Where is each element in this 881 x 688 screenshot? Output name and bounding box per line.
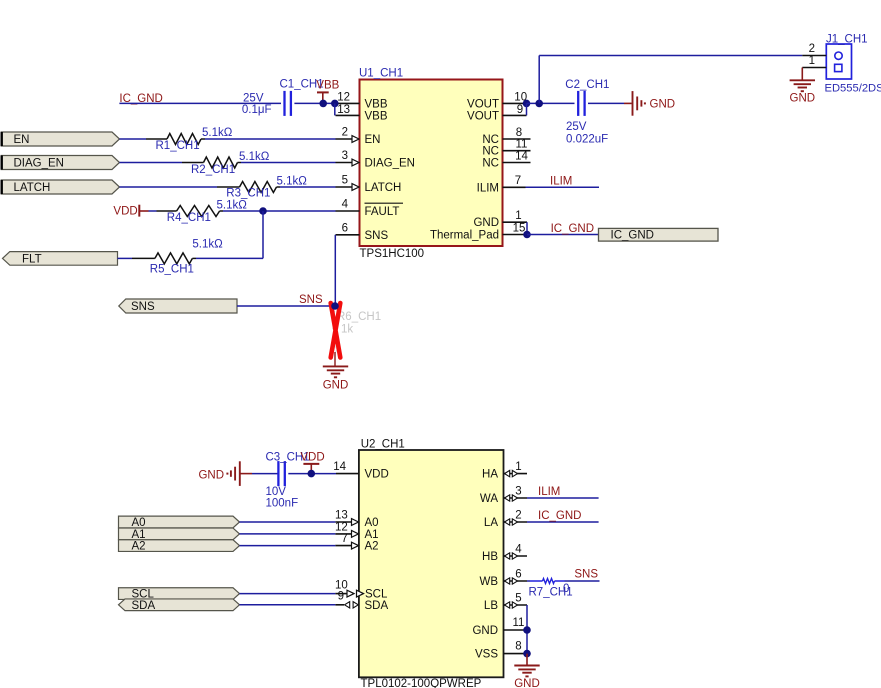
wire LB down: [526, 605, 528, 654]
svg-text:10V: 10V: [266, 486, 287, 498]
svg-text:A0: A0: [132, 517, 146, 529]
net label SNS: [299, 294, 323, 306]
U1 pin 12 VBB: [336, 91, 388, 110]
svg-text:IC_GND: IC_GND: [611, 229, 654, 241]
wire WA ILIM: [527, 497, 599, 499]
J1 pin 1: [802, 55, 826, 68]
U1 pin 5 LATCH: [336, 175, 402, 194]
capacitor C1 C1_CH1: [242, 79, 324, 116]
svg-text:15: 15: [513, 222, 526, 234]
svg-text:9: 9: [517, 104, 523, 116]
U2 pin 6 WB: [479, 568, 527, 588]
junction VOUT pins: [523, 100, 531, 108]
svg-text:NC: NC: [482, 146, 499, 158]
resistor R1 R1_CH1: [146, 127, 233, 152]
svg-text:ILIM: ILIM: [477, 182, 499, 194]
wire C3 to U2 VDD: [288, 473, 336, 475]
svg-text:8: 8: [516, 127, 522, 139]
junction VDD C3: [308, 470, 316, 478]
svg-text:14: 14: [515, 150, 528, 162]
connector J1 J1_CH1 body: [825, 34, 881, 95]
svg-text:EN: EN: [365, 134, 381, 146]
ground GND left of C3: [198, 461, 252, 486]
wire IC_GND to flag: [527, 234, 599, 236]
svg-text:9: 9: [338, 590, 344, 602]
wire pin1 to pin15: [526, 222, 528, 234]
port LATCH: [1, 180, 119, 194]
svg-text:25V: 25V: [243, 93, 264, 105]
svg-text:3: 3: [342, 150, 348, 162]
junction GND pin: [523, 626, 531, 634]
U2 part number TPL0102-100QPWREP: [361, 678, 482, 688]
resistor R3 R3_CH1: [217, 175, 307, 199]
svg-text:FLT: FLT: [22, 254, 42, 266]
wire FLT flag to R5: [118, 257, 133, 259]
svg-text:1: 1: [809, 55, 815, 67]
svg-text:U2_CH1: U2_CH1: [361, 438, 405, 450]
wire WB to R7: [527, 580, 530, 582]
svg-text:IC_GND: IC_GND: [538, 510, 581, 522]
U2 pin 3 WA: [480, 485, 527, 505]
svg-text:SNS: SNS: [365, 230, 389, 242]
capacitor C2 C2_CH1: [565, 79, 609, 145]
wire A0: [240, 521, 336, 523]
svg-text:A2: A2: [365, 541, 379, 553]
wire ILIM: [526, 186, 600, 188]
U1 pin 2 EN: [336, 127, 381, 146]
svg-text:GND: GND: [323, 380, 349, 392]
wire R6 to GND: [334, 352, 336, 366]
svg-text:6: 6: [342, 222, 348, 234]
U1 pin 13 VBB: [336, 104, 388, 123]
svg-text:TPL0102-100QPWREP: TPL0102-100QPWREP: [361, 678, 482, 688]
svg-text:HB: HB: [482, 551, 498, 563]
svg-text:NC: NC: [482, 134, 499, 146]
svg-text:GND: GND: [790, 93, 816, 105]
svg-text:A0: A0: [365, 517, 379, 529]
wire FAULT node down: [262, 211, 264, 258]
svg-text:100nF: 100nF: [266, 498, 299, 510]
svg-text:13: 13: [335, 510, 348, 522]
U1 pin 6 SNS: [336, 222, 389, 241]
svg-text:13: 13: [337, 104, 350, 116]
svg-text:6: 6: [515, 568, 521, 580]
op-amp U2 TPL0102 body: [359, 450, 504, 677]
svg-text:VOUT: VOUT: [467, 98, 499, 110]
svg-text:LATCH: LATCH: [14, 182, 51, 194]
svg-text:VSS: VSS: [475, 649, 498, 661]
wire C1 to U1 VBB: [294, 102, 335, 104]
wire R2 to U1 DIAG_EN: [241, 162, 336, 164]
net label IC_GND: [119, 93, 162, 105]
J1 pin 2: [802, 43, 826, 56]
svg-text:VBB: VBB: [316, 79, 339, 91]
svg-text:SNS: SNS: [131, 301, 155, 313]
wire A1: [240, 533, 336, 535]
wire GND to C3: [252, 473, 278, 475]
U1 designator U1_CH1: [359, 68, 403, 80]
U2 pin 9 SDA: [335, 590, 388, 612]
svg-text:ILIM: ILIM: [538, 486, 560, 498]
junction VBB wire: [319, 100, 327, 108]
wire VBB branch to pin 13: [334, 103, 336, 115]
power port VBB: [316, 79, 339, 103]
wire VOUT to J1 vertical: [538, 56, 540, 104]
junction VOUT J1 branch: [535, 100, 543, 108]
U1 pin 9 VOUT: [467, 104, 526, 123]
net label SNS at U2: [574, 569, 598, 581]
U1 pin 14 NC: [482, 150, 530, 169]
svg-text:ILIM: ILIM: [550, 176, 572, 188]
svg-text:5: 5: [342, 175, 348, 187]
resistor R5 R5_CH1: [132, 239, 223, 276]
svg-text:TPS1HC100: TPS1HC100: [360, 248, 425, 260]
U1 pin 8 NC: [482, 127, 530, 146]
svg-text:3: 3: [515, 485, 521, 497]
junction VSS pin: [523, 650, 531, 658]
svg-text:GND: GND: [472, 625, 498, 637]
svg-text:SDA: SDA: [132, 600, 156, 612]
svg-text:SNS: SNS: [574, 569, 598, 581]
svg-text:14: 14: [333, 461, 346, 473]
svg-text:GND: GND: [650, 98, 676, 110]
U2 designator U2_CH1: [361, 438, 405, 450]
wire R4 to U1 FAULT: [223, 210, 336, 212]
U2 pin 2 LA: [484, 509, 527, 529]
svg-text:5: 5: [515, 592, 521, 604]
svg-text:EN: EN: [14, 134, 30, 146]
svg-text:R1_CH1: R1_CH1: [156, 140, 200, 152]
U2 pin 11 GND: [472, 617, 527, 637]
wire VOUT to C2: [527, 102, 575, 104]
wire IC_GND to C1: [119, 102, 281, 104]
svg-text:12: 12: [335, 522, 348, 534]
U1 pin 11 NC: [482, 139, 530, 158]
svg-text:R4_CH1: R4_CH1: [167, 212, 211, 224]
svg-text:NC: NC: [482, 158, 499, 170]
port EN: [1, 132, 119, 146]
port IC_GND: [599, 228, 719, 241]
net label ILIM at U2: [538, 486, 560, 498]
U1 pin 1 GND: [473, 210, 527, 229]
U2 pin 12 A1: [335, 522, 379, 541]
svg-text:4: 4: [515, 543, 522, 555]
svg-text:1: 1: [515, 461, 521, 473]
svg-text:A1: A1: [132, 529, 146, 541]
capacitor C3 C3_CH1: [266, 452, 310, 510]
port SDA: [119, 599, 240, 612]
junction pin13 branch: [331, 100, 339, 108]
svg-text:12: 12: [337, 91, 350, 103]
wire VDD to R4: [149, 210, 157, 212]
wire SCL: [240, 593, 336, 595]
wire SNS flag to node: [237, 305, 335, 307]
net label IC_GND at U2: [538, 510, 581, 522]
svg-text:11: 11: [513, 617, 525, 629]
resistor R2 R2_CH1: [182, 151, 270, 176]
svg-text:8: 8: [515, 641, 521, 653]
svg-text:A2: A2: [132, 541, 146, 553]
ground GND at J1: [790, 80, 816, 104]
svg-text:FAULT: FAULT: [365, 206, 400, 218]
svg-text:LB: LB: [484, 600, 498, 612]
no-fit cross on R6: [331, 303, 341, 358]
svg-text:0: 0: [563, 583, 569, 595]
ground GND right of C2: [633, 91, 676, 116]
svg-text:DIAG_EN: DIAG_EN: [365, 158, 416, 170]
svg-text:GND: GND: [198, 470, 224, 482]
port SCL: [119, 588, 240, 601]
wire J1 pin1 to GND: [801, 68, 803, 81]
svg-text:SNS: SNS: [299, 294, 323, 306]
U1 part number TPS1HC100: [360, 248, 425, 260]
port A0: [119, 516, 240, 529]
U2 pin 1 HA: [482, 461, 527, 481]
U2 pin 10 SCL: [335, 580, 388, 601]
svg-text:VBB: VBB: [365, 98, 388, 110]
svg-text:R2_CH1: R2_CH1: [191, 164, 235, 176]
power port VDD at U2: [300, 452, 324, 474]
svg-text:7: 7: [341, 533, 347, 545]
svg-text:A1: A1: [365, 529, 379, 541]
svg-text:SCL: SCL: [365, 589, 388, 601]
svg-text:5.1kΩ: 5.1kΩ: [192, 239, 223, 251]
svg-text:LA: LA: [484, 517, 498, 529]
U2 pin 8 VSS: [475, 641, 527, 661]
wire SDA: [240, 604, 336, 606]
U1 pin 3 DIAG_EN: [336, 150, 416, 169]
wire LA IC_GND: [527, 521, 599, 523]
svg-text:VDD: VDD: [300, 452, 324, 464]
U1 pin 4 FAULT: [336, 199, 404, 218]
svg-text:R3_CH1: R3_CH1: [226, 188, 270, 200]
wire VOUT to J1 horizontal: [539, 55, 802, 57]
svg-text:U1_CH1: U1_CH1: [359, 68, 403, 80]
svg-text:ED555/2DS: ED555/2DS: [825, 83, 881, 95]
svg-text:1k: 1k: [341, 323, 353, 335]
wire EN flag to R1: [120, 138, 147, 140]
net label IC_GND at U1: [551, 223, 594, 235]
svg-text:5.1kΩ: 5.1kΩ: [202, 127, 233, 139]
resistor R7 R7_CH1: [529, 579, 573, 599]
svg-text:C2_CH1: C2_CH1: [565, 79, 609, 91]
wire VSS to GND: [526, 654, 528, 666]
svg-text:SDA: SDA: [365, 600, 389, 612]
resistor R4 R4_CH1: [157, 199, 248, 224]
svg-text:VBB: VBB: [365, 110, 388, 122]
svg-text:2: 2: [809, 43, 815, 55]
junction SNS node: [331, 302, 339, 310]
svg-text:GND: GND: [514, 678, 540, 688]
op-amp U1 TPS1HC100 body: [360, 80, 503, 247]
svg-text:5.1kΩ: 5.1kΩ: [217, 199, 248, 211]
svg-text:VOUT: VOUT: [467, 110, 499, 122]
svg-text:DIAG_EN: DIAG_EN: [14, 158, 65, 170]
port DIAG_EN: [1, 156, 119, 170]
U2 pin 13 A0: [335, 510, 379, 529]
U1 pin 10 VOUT: [467, 91, 527, 110]
svg-text:R6_CH1: R6_CH1: [337, 311, 381, 323]
wire R3 to U1 LATCH: [280, 186, 336, 188]
svg-text:4: 4: [342, 199, 349, 211]
port A1: [119, 528, 240, 541]
junction thermal pad: [523, 231, 531, 239]
ground GND below R6: [323, 366, 349, 391]
wire LATCH flag to R3: [120, 186, 218, 188]
svg-text:J1_CH1: J1_CH1: [826, 34, 868, 46]
wire R7 to SNS: [565, 580, 600, 582]
svg-text:11: 11: [516, 139, 528, 151]
svg-text:1: 1: [515, 210, 521, 222]
U2 pin 14 VDD: [333, 461, 389, 481]
svg-text:5.1kΩ: 5.1kΩ: [239, 151, 270, 163]
U2 pin 4 HB: [482, 543, 527, 563]
svg-text:25V: 25V: [566, 121, 587, 133]
wire C2 to GND: [588, 102, 632, 104]
wire A2: [240, 545, 336, 547]
svg-text:HA: HA: [482, 469, 498, 481]
U1 pin 7 ILIM: [477, 175, 526, 195]
svg-text:VDD: VDD: [113, 206, 137, 218]
wire U1 SNS down: [334, 235, 336, 306]
wire R1 to U1 EN: [205, 138, 336, 140]
svg-text:WB: WB: [479, 576, 498, 588]
svg-text:Thermal_Pad: Thermal_Pad: [430, 230, 499, 242]
svg-text:2: 2: [342, 127, 348, 139]
svg-text:2: 2: [515, 509, 521, 521]
wire R5 to FAULT node: [196, 257, 263, 259]
U2 pin 7 A2: [335, 533, 378, 552]
svg-text:GND: GND: [473, 217, 499, 229]
port FLT: [3, 252, 118, 266]
svg-text:7: 7: [515, 175, 521, 187]
svg-text:0.022uF: 0.022uF: [566, 133, 608, 145]
U2 pin 5 LB: [484, 592, 527, 612]
svg-text:VDD: VDD: [365, 469, 389, 481]
svg-text:5.1kΩ: 5.1kΩ: [277, 175, 308, 187]
U1 pin 15 Thermal_Pad: [430, 222, 527, 241]
svg-text:IC_GND: IC_GND: [551, 223, 594, 235]
svg-text:0.1μF: 0.1μF: [242, 104, 272, 116]
power port VDD: [113, 205, 148, 218]
wire pin9 riser: [526, 103, 528, 115]
junction FAULT node: [259, 207, 267, 215]
wire DIAG_EN flag to R2: [120, 162, 183, 164]
port SNS: [119, 299, 237, 313]
net label ILIM: [550, 176, 572, 188]
ground GND below U2: [514, 666, 540, 688]
svg-text:WA: WA: [480, 493, 498, 505]
resistor R6 R6_CH1 not fitted: [333, 311, 381, 353]
svg-text:R5_CH1: R5_CH1: [150, 264, 194, 276]
svg-text:LATCH: LATCH: [365, 182, 402, 194]
port A2: [119, 540, 240, 553]
